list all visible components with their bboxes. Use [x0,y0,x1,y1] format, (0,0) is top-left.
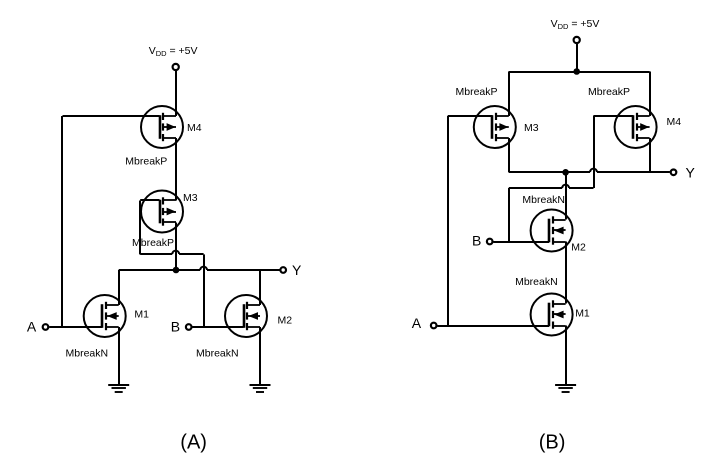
svg-text:M1: M1 [575,308,590,320]
svg-text:M2: M2 [278,315,293,327]
svg-text:M2: M2 [571,242,586,254]
svg-text:M4: M4 [667,116,682,128]
svg-text:M3: M3 [183,192,198,204]
svg-text:A: A [412,315,422,331]
svg-text:M1: M1 [134,309,149,321]
svg-text:Y: Y [686,165,696,181]
svg-text:(A): (A) [180,432,207,454]
svg-text:M4: M4 [187,122,202,134]
svg-text:B: B [472,232,481,248]
svg-text:B: B [171,319,180,335]
svg-text:Y: Y [292,262,302,278]
svg-text:MbreakN: MbreakN [66,348,109,360]
svg-text:MbreakP: MbreakP [456,86,498,98]
svg-text:MbreakN: MbreakN [196,348,239,360]
svg-text:MbreakP: MbreakP [588,86,630,98]
svg-text:M3: M3 [524,122,539,134]
svg-text:(B): (B) [539,432,566,454]
svg-text:A: A [27,319,37,335]
svg-text:MbreakN: MbreakN [515,276,558,288]
svg-text:MbreakN: MbreakN [522,194,565,206]
svg-text:MbreakP: MbreakP [132,237,174,249]
svg-text:MbreakP: MbreakP [125,156,167,168]
